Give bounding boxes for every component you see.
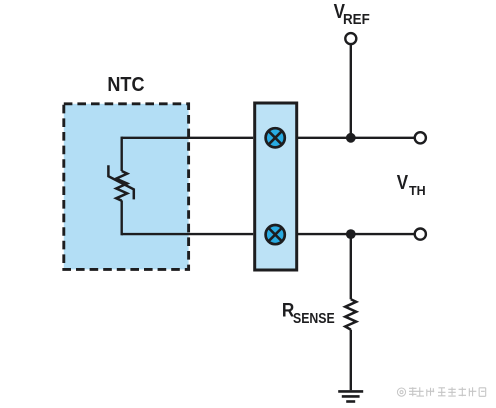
- svg-text:REF: REF: [343, 11, 370, 28]
- svg-text:V: V: [397, 171, 409, 194]
- svg-text:NTC: NTC: [107, 74, 144, 96]
- svg-text:TH: TH: [409, 183, 426, 198]
- svg-text:SENSE: SENSE: [293, 309, 335, 327]
